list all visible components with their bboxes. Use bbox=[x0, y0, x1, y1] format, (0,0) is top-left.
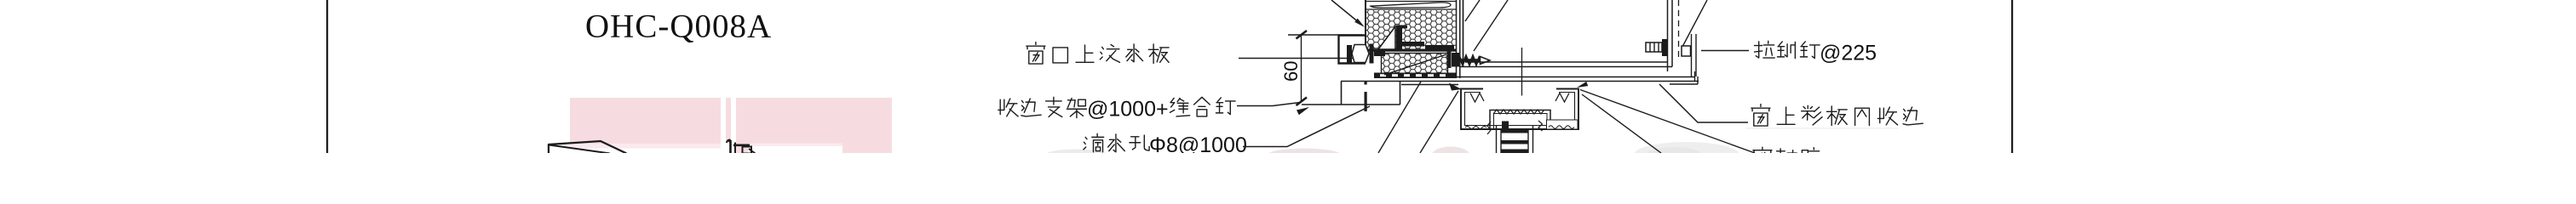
svg-text:OHC-Q008A: OHC-Q008A bbox=[585, 8, 772, 45]
pink highlight thin stripe bbox=[726, 98, 731, 141]
dimension tick bottom bbox=[1297, 98, 1308, 106]
dimension tick top bbox=[1297, 31, 1308, 39]
support bracket vertical black bar bbox=[1396, 25, 1402, 50]
panel top skin boundary lines bbox=[1366, 2, 1457, 10]
frame right edge double line bbox=[1668, 0, 1673, 71]
anchor bolt threaded rod bbox=[1374, 50, 1385, 57]
wall panel outer skin left edge bbox=[1365, 0, 1366, 52]
mullion ladder rungs bbox=[1501, 129, 1528, 133]
sheet column border line right bbox=[2011, 0, 2013, 153]
steep leader at frame top a bbox=[1465, 0, 1480, 21]
ladder side zigzag left bbox=[1487, 122, 1491, 134]
ladder side zigzag right bbox=[1538, 121, 1543, 131]
anchor bolt hex nut bbox=[1352, 45, 1369, 63]
trim vertical lines bbox=[1692, 34, 1697, 76]
gasket wavy line left side bbox=[1465, 127, 1486, 129]
leader line for window top flashing label bbox=[1239, 58, 1363, 59]
frame left edge lines bbox=[1463, 0, 1464, 67]
label text: sealant (partially cut) bbox=[1753, 147, 1772, 167]
frame bottom double line bbox=[1459, 62, 1672, 67]
honeycomb core lower panel bbox=[1382, 54, 1448, 76]
flashing centreline ticks bbox=[1365, 81, 1367, 85]
dimension extension line top bbox=[1288, 34, 1362, 36]
support bracket horizontal black bar bbox=[1402, 42, 1424, 47]
arrow head at receptor right corner bbox=[1577, 82, 1588, 88]
serration mark left bbox=[1470, 93, 1484, 103]
self drilling screw washer bbox=[1447, 51, 1452, 69]
arrow head on receptor corner leader bbox=[1449, 83, 1462, 91]
panel joint black band bbox=[1366, 49, 1457, 52]
gasket box with wavy bottom bbox=[1547, 120, 1578, 129]
gray-pink blob bottom left of leader bbox=[1268, 149, 1341, 161]
gray-pink blob left of receptor bbox=[1432, 147, 1469, 163]
self drilling screw thread bbox=[1459, 56, 1480, 65]
frame dashed centre line bbox=[1678, 0, 1680, 58]
lower panel dark bottom band bbox=[1374, 73, 1457, 79]
leader line for inner trim label bbox=[1659, 84, 1748, 122]
leader line for drip hole label bbox=[1243, 106, 1370, 147]
self drilling screw tip bbox=[1481, 57, 1491, 65]
ladder top black block bbox=[1502, 122, 1509, 129]
gray sealant shadow blob bbox=[1634, 142, 1739, 167]
pull rivet flange bar bbox=[1662, 39, 1668, 56]
pull rivet mandrel sleeve bbox=[1646, 42, 1662, 52]
panel top skin lens section bbox=[1371, 3, 1451, 8]
pink highlight block left soft bottom edge bbox=[570, 144, 721, 149]
flashing drop leg box bbox=[1302, 82, 1400, 105]
gray shadow blob under drip-hole text bbox=[1045, 150, 1108, 161]
anchor C bracket bbox=[1339, 36, 1366, 64]
pink block right white notch bbox=[748, 146, 842, 154]
mullion ladder rails bbox=[1497, 126, 1533, 153]
leader diagonal to bottom edge c bbox=[1420, 91, 1458, 153]
svg-text:@1000+: @1000+ bbox=[1087, 98, 1169, 122]
leader line for pull rivet label bbox=[1701, 50, 1749, 52]
svg-text:60: 60 bbox=[1280, 61, 1302, 82]
support bracket white triangle bbox=[1378, 26, 1395, 49]
steep leader at frame top b bbox=[1474, 0, 1508, 51]
pink highlight block right bbox=[736, 98, 892, 153]
label text: drip hole dia8 @1000 bbox=[1084, 133, 1104, 151]
receptor centre platform bbox=[1490, 110, 1550, 130]
platform zigzag top bbox=[1493, 110, 1544, 114]
support bracket lower black segment bbox=[1425, 45, 1454, 49]
svg-text:Φ8@1000: Φ8@1000 bbox=[1149, 133, 1247, 153]
rivet washer on trim bbox=[1682, 46, 1691, 56]
leader line for edge bracket label bbox=[1237, 103, 1300, 106]
label text: inner trim of colour panel above window bbox=[1751, 105, 1770, 127]
receptor inner lining bbox=[1465, 93, 1575, 126]
pink block right notch soft edge bbox=[748, 144, 842, 147]
support bracket top hook bbox=[1402, 25, 1407, 29]
anchor bolt second washer bbox=[1370, 44, 1374, 64]
dimension line vertical bbox=[1301, 36, 1302, 102]
leader to top right bbox=[1682, 0, 1707, 47]
anchor bolt washer bar bbox=[1347, 45, 1352, 63]
svg-text:@225: @225 bbox=[1820, 42, 1877, 65]
panel right skin lines bbox=[1457, 0, 1460, 78]
small clip icon bbox=[727, 140, 756, 154]
sheet column border line left bbox=[326, 0, 328, 153]
serration mark right bbox=[1555, 93, 1569, 103]
leader diagonal to bottom edge b bbox=[1378, 82, 1421, 153]
frame section joint tick bbox=[1521, 48, 1523, 96]
label text: pull rivet @225 bbox=[1754, 41, 1774, 58]
leader diagonal from top left bbox=[1331, 0, 1362, 25]
leader diagonal crossing honeycomb bbox=[1384, 54, 1446, 75]
honeycomb core upper region bbox=[1366, 10, 1456, 49]
second leader to bottom edge bbox=[1582, 94, 1661, 153]
arrow head on edge bracket leader bbox=[1297, 107, 1309, 115]
head flashing lines bbox=[1341, 77, 1699, 85]
leader to sealant label bbox=[1580, 90, 1755, 154]
pink highlight block left bbox=[570, 98, 721, 144]
head flashing right upturn bbox=[1694, 71, 1696, 82]
faint gray line right of sealant bbox=[1745, 127, 1899, 128]
label text: window top flashing (chuang kou shang fan shui ban) bbox=[1026, 42, 1045, 65]
label text: edge bracket @1000 + stitching screws bbox=[998, 99, 1018, 116]
arrow head on top left leader bbox=[1354, 19, 1365, 27]
flashing right end box bbox=[1670, 76, 1698, 84]
receptor outer profile bbox=[1461, 89, 1578, 130]
isometric panel icon bbox=[549, 141, 627, 154]
